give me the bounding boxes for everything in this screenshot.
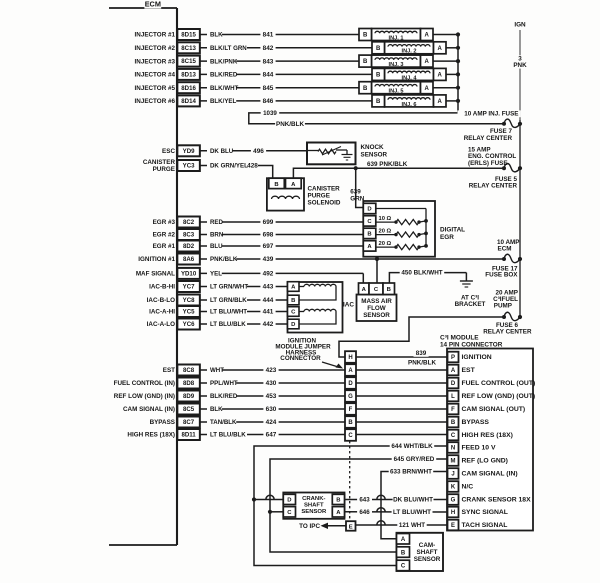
svg-text:H: H xyxy=(451,510,455,516)
svg-text:C: C xyxy=(401,564,406,570)
svg-text:EGR #3: EGR #3 xyxy=(153,219,176,226)
svg-text:647: 647 xyxy=(266,432,277,439)
svg-text:DK BLU: DK BLU xyxy=(210,148,234,155)
svg-text:A: A xyxy=(425,86,430,92)
svg-text:(ERLS) FUSE: (ERLS) FUSE xyxy=(468,160,508,167)
svg-text:439: 439 xyxy=(263,256,274,263)
svg-text:845: 845 xyxy=(263,85,274,92)
svg-text:8A6: 8A6 xyxy=(183,256,195,263)
svg-text:644 WHT/BLK: 644 WHT/BLK xyxy=(391,443,433,450)
svg-text:428: 428 xyxy=(247,163,258,170)
svg-text:698: 698 xyxy=(263,232,274,239)
svg-text:CONNECTOR: CONNECTOR xyxy=(280,355,321,362)
svg-text:639 PNK/BLK: 639 PNK/BLK xyxy=(367,161,408,168)
svg-text:444: 444 xyxy=(263,297,274,304)
svg-text:INJECTOR #2: INJECTOR #2 xyxy=(135,45,176,52)
svg-text:FUEL CONTROL (OUT): FUEL CONTROL (OUT) xyxy=(462,380,536,387)
svg-text:BLK/YEL: BLK/YEL xyxy=(210,98,237,105)
svg-text:BRN: BRN xyxy=(210,232,224,239)
svg-text:LT GRN/BLK: LT GRN/BLK xyxy=(210,297,247,304)
svg-text:646: 646 xyxy=(359,509,370,516)
svg-text:INJ. 1: INJ. 1 xyxy=(389,35,404,41)
svg-text:SHAFT: SHAFT xyxy=(304,503,324,509)
svg-text:PPL/WHT: PPL/WHT xyxy=(210,380,238,387)
svg-text:PNK: PNK xyxy=(513,62,527,69)
svg-text:RELAY CENTER: RELAY CENTER xyxy=(464,135,513,142)
svg-text:MASS AIR: MASS AIR xyxy=(361,298,392,305)
svg-text:BLK: BLK xyxy=(210,32,223,39)
svg-text:G: G xyxy=(451,498,456,504)
svg-text:HIGH RES (18X): HIGH RES (18X) xyxy=(127,432,175,439)
svg-text:BYPASS: BYPASS xyxy=(462,419,490,426)
svg-text:121 WHT: 121 WHT xyxy=(399,522,425,529)
svg-text:CAM SIGNAL (OUT): CAM SIGNAL (OUT) xyxy=(462,406,526,413)
svg-text:A: A xyxy=(291,182,296,188)
svg-text:842: 842 xyxy=(263,45,274,52)
svg-text:PNK/BLK: PNK/BLK xyxy=(408,360,436,367)
svg-text:8C8: 8C8 xyxy=(183,367,195,374)
svg-text:EST: EST xyxy=(163,367,175,374)
svg-text:ECM: ECM xyxy=(498,246,512,253)
svg-text:CAM SIGNAL (IN): CAM SIGNAL (IN) xyxy=(123,406,175,413)
svg-text:EGR #1: EGR #1 xyxy=(153,243,176,250)
svg-text:YC3: YC3 xyxy=(183,163,195,170)
svg-text:B: B xyxy=(376,73,381,79)
svg-text:20 Ω: 20 Ω xyxy=(379,229,392,235)
svg-text:A: A xyxy=(336,510,341,516)
svg-text:YEL: YEL xyxy=(210,271,222,278)
svg-text:699: 699 xyxy=(263,219,274,226)
svg-text:EGR #2: EGR #2 xyxy=(153,232,176,239)
svg-text:YD9: YD9 xyxy=(183,148,195,155)
svg-text:442: 442 xyxy=(263,321,274,328)
svg-text:643: 643 xyxy=(359,497,370,504)
svg-text:CRANK-: CRANK- xyxy=(302,496,325,502)
svg-text:E: E xyxy=(451,523,455,529)
svg-text:DIGITAL: DIGITAL xyxy=(440,227,465,234)
svg-text:14 PIN CONNECTOR: 14 PIN CONNECTOR xyxy=(440,341,503,348)
svg-text:REF LOW (GND) (IN): REF LOW (GND) (IN) xyxy=(114,393,175,400)
svg-text:M: M xyxy=(451,459,456,465)
svg-text:RED: RED xyxy=(210,219,224,226)
svg-text:697: 697 xyxy=(263,243,274,250)
svg-text:BLK: BLK xyxy=(210,406,223,413)
svg-text:630: 630 xyxy=(266,406,277,413)
svg-text:INJECTOR #1: INJECTOR #1 xyxy=(135,32,176,39)
svg-text:B: B xyxy=(274,182,278,188)
svg-text:FEED 10 V: FEED 10 V xyxy=(462,445,496,452)
svg-text:ECM: ECM xyxy=(145,0,161,9)
svg-text:A: A xyxy=(438,46,443,52)
svg-text:EGR: EGR xyxy=(440,234,454,241)
svg-text:B: B xyxy=(348,420,353,426)
svg-text:496: 496 xyxy=(253,148,264,155)
svg-text:B: B xyxy=(363,86,368,92)
svg-text:PNK/BLK: PNK/BLK xyxy=(210,256,238,263)
svg-text:C: C xyxy=(374,287,379,293)
svg-text:SENSOR: SENSOR xyxy=(301,509,327,515)
svg-text:C: C xyxy=(287,510,292,516)
svg-text:D: D xyxy=(287,498,291,504)
svg-text:C: C xyxy=(291,310,296,316)
svg-text:844: 844 xyxy=(263,72,274,79)
svg-text:SOLENOID: SOLENOID xyxy=(308,199,341,206)
svg-text:A: A xyxy=(401,537,406,543)
svg-text:INJ. 6: INJ. 6 xyxy=(402,102,417,108)
svg-text:SENSOR: SENSOR xyxy=(414,556,441,563)
svg-text:INJECTOR #3: INJECTOR #3 xyxy=(135,58,176,65)
svg-text:LT GRN/WHT: LT GRN/WHT xyxy=(210,284,248,291)
svg-text:WHT: WHT xyxy=(210,367,224,374)
svg-text:B: B xyxy=(363,59,368,65)
svg-text:8C5: 8C5 xyxy=(183,406,195,413)
svg-text:423: 423 xyxy=(266,367,277,374)
svg-text:D: D xyxy=(451,381,456,387)
svg-text:MAF SIGNAL: MAF SIGNAL xyxy=(136,271,175,278)
svg-text:PUMP: PUMP xyxy=(494,303,512,310)
svg-text:D: D xyxy=(348,381,353,387)
svg-text:LT BLU/BLK: LT BLU/BLK xyxy=(210,432,246,439)
svg-text:INJ. 2: INJ. 2 xyxy=(402,49,417,55)
svg-text:CAM SIGNAL (IN): CAM SIGNAL (IN) xyxy=(462,471,518,478)
svg-text:J: J xyxy=(451,472,454,478)
svg-text:BLK/LT GRN: BLK/LT GRN xyxy=(210,45,247,52)
svg-text:INJ. 3: INJ. 3 xyxy=(389,62,404,68)
svg-text:8C3: 8C3 xyxy=(183,232,195,239)
svg-text:8C13: 8C13 xyxy=(181,45,196,52)
svg-text:A: A xyxy=(367,244,372,250)
svg-text:N/C: N/C xyxy=(462,484,474,491)
svg-text:INJECTOR #4: INJECTOR #4 xyxy=(135,72,176,79)
svg-text:INJECTOR #6: INJECTOR #6 xyxy=(135,98,176,105)
svg-text:FLOW: FLOW xyxy=(367,305,386,312)
svg-text:IGN: IGN xyxy=(514,22,526,29)
svg-text:8D2: 8D2 xyxy=(183,243,195,250)
svg-text:F: F xyxy=(349,407,353,413)
svg-text:B: B xyxy=(367,232,371,238)
svg-text:841: 841 xyxy=(263,32,274,39)
svg-text:YC5: YC5 xyxy=(183,309,195,316)
svg-text:H: H xyxy=(348,355,352,361)
svg-text:A: A xyxy=(425,59,430,65)
svg-text:BLU: BLU xyxy=(210,243,223,250)
svg-text:TO IPC: TO IPC xyxy=(299,523,320,530)
svg-text:DK GRN/YEL: DK GRN/YEL xyxy=(210,163,248,170)
svg-text:P: P xyxy=(451,355,455,361)
svg-text:A: A xyxy=(362,287,367,293)
svg-text:LT BLU/WHT: LT BLU/WHT xyxy=(393,509,431,516)
svg-text:639: 639 xyxy=(350,189,361,196)
svg-text:492: 492 xyxy=(263,271,274,278)
svg-text:IAC: IAC xyxy=(343,301,354,308)
svg-text:SHAFT: SHAFT xyxy=(417,549,438,556)
svg-text:PURGE: PURGE xyxy=(153,166,175,173)
svg-text:B: B xyxy=(336,498,340,504)
svg-text:L: L xyxy=(451,394,455,400)
svg-text:SENSOR: SENSOR xyxy=(361,151,388,158)
svg-text:843: 843 xyxy=(263,58,274,65)
svg-text:846: 846 xyxy=(263,98,274,105)
svg-text:8D14: 8D14 xyxy=(181,98,196,105)
svg-text:10 AMP INJ. FUSE: 10 AMP INJ. FUSE xyxy=(464,111,518,118)
svg-text:8C7: 8C7 xyxy=(183,419,195,426)
svg-text:20 Ω: 20 Ω xyxy=(379,241,392,247)
svg-text:8D9: 8D9 xyxy=(183,393,195,400)
svg-text:IGNITION #1: IGNITION #1 xyxy=(138,256,175,263)
svg-text:YD10: YD10 xyxy=(181,271,197,278)
svg-text:K: K xyxy=(451,485,456,491)
svg-text:424: 424 xyxy=(266,419,277,426)
svg-text:YC8: YC8 xyxy=(183,297,195,304)
svg-text:B: B xyxy=(363,33,368,39)
svg-text:441: 441 xyxy=(263,309,274,316)
svg-text:IAC-B-LO: IAC-B-LO xyxy=(147,297,175,304)
svg-text:REF (LO GND): REF (LO GND) xyxy=(462,458,508,465)
svg-text:SENSOR: SENSOR xyxy=(363,312,390,319)
svg-text:RELAY CENTER: RELAY CENTER xyxy=(469,183,518,190)
svg-text:YC7: YC7 xyxy=(183,284,195,291)
svg-text:CANISTER: CANISTER xyxy=(143,159,176,166)
svg-text:A: A xyxy=(348,368,353,374)
svg-text:D: D xyxy=(367,207,371,213)
svg-text:IAC-A-HI: IAC-A-HI xyxy=(149,309,175,316)
svg-text:TAN/BLK: TAN/BLK xyxy=(210,419,237,426)
svg-text:453: 453 xyxy=(266,393,277,400)
svg-text:430: 430 xyxy=(266,380,277,387)
svg-text:645 GRY/RED: 645 GRY/RED xyxy=(394,456,435,463)
svg-text:BRACKET: BRACKET xyxy=(455,301,486,308)
svg-text:B: B xyxy=(291,298,295,304)
svg-text:BLK/WHT: BLK/WHT xyxy=(210,85,239,92)
svg-text:A: A xyxy=(438,73,443,79)
svg-text:RELAY CENTER: RELAY CENTER xyxy=(483,329,532,336)
svg-text:BLK/PNK: BLK/PNK xyxy=(210,58,238,65)
svg-text:D: D xyxy=(291,322,295,328)
svg-text:INJECTOR #5: INJECTOR #5 xyxy=(135,85,176,92)
svg-text:8D15: 8D15 xyxy=(181,32,196,39)
svg-text:B: B xyxy=(387,287,391,293)
svg-text:YC6: YC6 xyxy=(183,321,195,328)
svg-text:8C15: 8C15 xyxy=(181,58,196,65)
svg-text:C: C xyxy=(348,433,353,439)
svg-text:DK BLU/WHT: DK BLU/WHT xyxy=(393,497,433,504)
svg-text:KNOCK: KNOCK xyxy=(361,144,385,151)
svg-text:HIGH RES (18X): HIGH RES (18X) xyxy=(462,432,513,439)
svg-text:REF LOW (GND) (OUT): REF LOW (GND) (OUT) xyxy=(462,393,536,400)
svg-text:A: A xyxy=(425,33,430,39)
svg-text:A: A xyxy=(291,285,296,291)
svg-text:BYPASS: BYPASS xyxy=(150,419,175,426)
svg-text:PNK/BLK: PNK/BLK xyxy=(276,121,304,128)
svg-text:FUSE BOX: FUSE BOX xyxy=(485,272,518,279)
svg-text:INJ. 5: INJ. 5 xyxy=(389,89,404,95)
svg-text:8D13: 8D13 xyxy=(181,72,196,79)
svg-text:SYNC SIGNAL: SYNC SIGNAL xyxy=(462,509,508,516)
svg-text:LT BLU/BLK: LT BLU/BLK xyxy=(210,321,246,328)
svg-text:N: N xyxy=(451,446,455,452)
svg-text:IGNITION: IGNITION xyxy=(462,354,492,361)
svg-text:CRANK SENSOR 18X: CRANK SENSOR 18X xyxy=(462,497,532,504)
svg-text:443: 443 xyxy=(263,284,274,291)
svg-text:C: C xyxy=(451,433,456,439)
svg-text:8D8: 8D8 xyxy=(183,380,195,387)
svg-text:CAM-: CAM- xyxy=(419,542,435,549)
svg-text:450 BLK/WHT: 450 BLK/WHT xyxy=(401,270,442,277)
svg-text:FUEL CONTROL (IN): FUEL CONTROL (IN) xyxy=(114,380,175,387)
svg-text:1039: 1039 xyxy=(263,110,277,117)
svg-text:BLK/RED: BLK/RED xyxy=(210,393,238,400)
svg-text:C: C xyxy=(367,219,372,225)
svg-text:CANISTER: CANISTER xyxy=(308,185,341,192)
svg-text:B: B xyxy=(376,46,381,52)
svg-text:839: 839 xyxy=(416,350,427,357)
svg-text:PURGE: PURGE xyxy=(308,192,330,199)
svg-text:ESC: ESC xyxy=(162,148,175,155)
svg-text:G: G xyxy=(348,394,353,400)
svg-text:IAC-A-LO: IAC-A-LO xyxy=(147,321,175,328)
svg-text:633 BRN/WHT: 633 BRN/WHT xyxy=(390,469,432,476)
svg-text:TACH SIGNAL: TACH SIGNAL xyxy=(462,522,508,529)
svg-text:B: B xyxy=(376,99,381,105)
svg-text:A: A xyxy=(451,368,456,374)
svg-text:BLK/RED: BLK/RED xyxy=(210,72,238,79)
svg-text:A: A xyxy=(438,99,443,105)
svg-text:IAC-B-HI: IAC-B-HI xyxy=(149,284,175,291)
svg-text:8D11: 8D11 xyxy=(181,432,196,439)
svg-text:E: E xyxy=(349,524,353,530)
svg-text:INJ. 4: INJ. 4 xyxy=(402,75,418,81)
svg-text:B: B xyxy=(401,550,406,556)
svg-text:8C2: 8C2 xyxy=(183,219,195,226)
svg-text:8D16: 8D16 xyxy=(181,85,196,92)
svg-text:B: B xyxy=(451,420,456,426)
svg-text:10 Ω: 10 Ω xyxy=(379,216,392,222)
svg-text:EST: EST xyxy=(462,367,476,374)
svg-text:LT BLU/WHT: LT BLU/WHT xyxy=(210,309,247,316)
svg-text:F: F xyxy=(451,407,455,413)
